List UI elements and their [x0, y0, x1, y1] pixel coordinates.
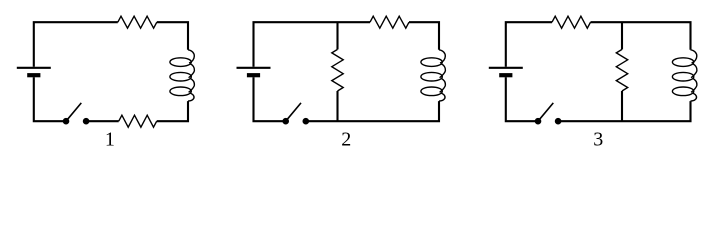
switch circuit 3: lever arm	[538, 103, 553, 121]
inductor circuit 2: loop 2 ellipse	[421, 72, 442, 81]
inductor circuit 2: loop 3 ellipse	[421, 87, 442, 96]
wire: top side + top-right corner down to inductor	[591, 22, 691, 50]
battery circuit 3: short thick negative plate	[499, 73, 512, 77]
switch circuit 1: lever arm	[66, 103, 81, 121]
inductor circuit 1: loop 2 ellipse	[170, 72, 191, 81]
wire: left side below battery + bottom-left corner	[254, 77, 286, 121]
wire: left side + top-left corner	[506, 22, 552, 67]
inductor circuit 3: loop 3 ellipse	[672, 87, 693, 96]
svg-text:2: 2	[341, 128, 351, 150]
wire: middle branch upper	[621, 22, 623, 49]
wire: left side below battery + bottom-left corner	[34, 77, 66, 121]
inductor circuit 2: bottom connector curl	[439, 93, 445, 101]
battery circuit 2: short thick negative plate	[247, 73, 260, 77]
battery circuit 1: long positive plate	[17, 67, 51, 69]
switch circuit 2: lever arm	[286, 103, 301, 121]
inductor circuit 1: connector curl 1-2	[189, 64, 195, 78]
inductor circuit 1: loop 3 ellipse	[170, 87, 191, 96]
resistor: circuit 3 top	[552, 16, 591, 28]
switch circuit 2: right contact dot	[303, 118, 310, 125]
wire: left side + top-left corner	[34, 22, 118, 67]
resistor: circuit 1 bottom	[119, 115, 157, 127]
wire: left side + top-left corner	[254, 22, 371, 67]
resistor: circuit 2 top	[370, 16, 409, 28]
wire: middle branch lower	[336, 91, 338, 121]
resistor: circuit 1 top	[118, 16, 157, 28]
wire: middle branch upper	[336, 22, 338, 49]
battery circuit 1: short thick negative plate	[27, 73, 40, 77]
inductor circuit 3: connector curl 2-3	[691, 79, 697, 93]
circuit 3 group	[489, 16, 697, 124]
svg-text:1: 1	[105, 128, 115, 150]
inductor circuit 2: loop 1 ellipse	[421, 58, 442, 67]
resistor: circuit 2 middle vertical	[332, 49, 343, 91]
inductor circuit 2: connector curl 1-2	[440, 64, 446, 78]
wire: bottom side, switch to resistor	[86, 120, 119, 122]
inductor circuit 1: connector curl 2-3	[189, 79, 195, 93]
inductor circuit 3: loop 2 ellipse	[672, 72, 693, 81]
circuit 1 group	[17, 16, 195, 127]
inductor circuit 1: loop 1 ellipse	[170, 58, 191, 67]
inductor circuit 3: connector curl 1-2	[691, 64, 697, 78]
wire: top side + top-right corner down to inductor	[409, 22, 439, 50]
switch circuit 1: right contact dot	[83, 118, 90, 125]
inductor circuit 2: connector curl 2-3	[440, 79, 446, 93]
inductor circuit 3: bottom connector curl	[691, 93, 697, 101]
wire: bottom side + bottom-right corner up to inductor	[306, 101, 439, 121]
inductor circuit 1: bottom connector curl	[188, 93, 194, 101]
wire: top side + top-right corner down to inductor	[157, 22, 188, 50]
wire: bottom side + bottom-right corner up to inductor	[558, 101, 690, 121]
switch circuit 3: left contact dot	[535, 118, 542, 125]
inductor circuit 3: loop 1 ellipse	[672, 58, 693, 67]
wire: bottom side + bottom-right corner up to inductor	[157, 101, 188, 121]
circuit 2 group	[237, 16, 446, 124]
switch circuit 3: right contact dot	[555, 118, 562, 125]
switch circuit 2: left contact dot	[282, 118, 289, 125]
battery circuit 3: long positive plate	[489, 67, 523, 69]
svg-text:3: 3	[593, 128, 603, 150]
switch circuit 1: left contact dot	[63, 118, 70, 125]
wire: middle branch lower	[621, 91, 623, 121]
battery circuit 2: long positive plate	[237, 67, 271, 69]
inductor circuit 1: top connector curl	[188, 50, 194, 63]
inductor circuit 2: top connector curl	[439, 50, 445, 63]
wire: left side below battery + bottom-left corner	[506, 77, 538, 121]
resistor: circuit 3 middle vertical	[616, 49, 627, 91]
inductor circuit 3: top connector curl	[691, 50, 697, 63]
